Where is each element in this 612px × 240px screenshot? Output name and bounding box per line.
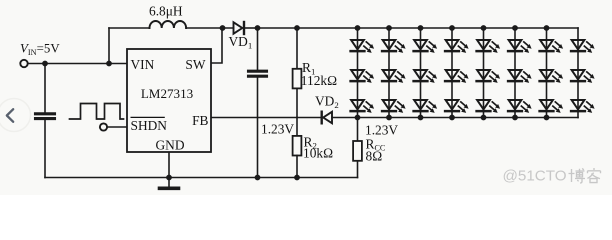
wire LED column 4 riser (451, 28, 453, 118)
node input cap junction (42, 61, 48, 67)
wire LED column 7 riser (546, 28, 548, 118)
LED D63 (508, 100, 531, 113)
node SW top junction (220, 25, 226, 31)
wire boost loop riser (108, 28, 110, 64)
wire LED column 5 riser (483, 28, 485, 118)
svg-text:SW: SW (185, 57, 205, 72)
inductor L1 6.8uH (150, 21, 187, 28)
svg-text:6.8μH: 6.8μH (149, 3, 183, 18)
svg-text:VIN=5V: VIN=5V (20, 42, 60, 57)
node C2 bottom (255, 175, 261, 181)
wire LED column 2 riser (388, 28, 390, 118)
node LED column 5 top (481, 25, 487, 31)
resistor R1 112k (293, 28, 302, 118)
node boost loop junction (106, 61, 112, 67)
wire VD1 to LED columns (257, 27, 578, 29)
wire LED column 1 riser (357, 28, 359, 118)
LED D13 (351, 100, 375, 113)
capacitor C1 input (36, 64, 55, 178)
wire top left to inductor (109, 27, 150, 29)
resistor RCC 8ohm (353, 118, 362, 178)
LED D32 (414, 70, 438, 83)
node R1 top (294, 25, 300, 31)
diode VD1 (234, 22, 258, 34)
svg-text:112kΩ: 112kΩ (301, 73, 337, 88)
LED D41 (445, 40, 469, 53)
svg-text:10kΩ: 10kΩ (303, 145, 333, 160)
LED D83 (571, 100, 595, 113)
node LED column 6 bottom (512, 115, 518, 121)
svg-text:LM27313: LM27313 (141, 86, 194, 101)
resistor R2 10k (293, 118, 302, 178)
terminal SHDN input (100, 123, 107, 130)
LED D22 (382, 70, 406, 83)
node LED column 7 bottom (544, 115, 550, 121)
wire inductor to VD1 (186, 27, 233, 29)
wire GND pin (168, 152, 170, 188)
svg-text:1.23V: 1.23V (261, 122, 294, 137)
node LED column 2 top (386, 25, 392, 31)
node LED column 5 bottom (481, 115, 487, 121)
wire FB pin to VD2 (211, 117, 321, 119)
node C2 top (255, 25, 261, 31)
LED D12 (351, 70, 375, 83)
LED D21 (382, 40, 406, 53)
svg-text:VIN: VIN (131, 57, 155, 72)
node LED column 7 top (544, 25, 550, 31)
svg-text:SHDN: SHDN (131, 118, 168, 133)
LED D23 (382, 100, 406, 113)
input terminal VIN (20, 60, 27, 67)
LED D11 (351, 40, 375, 53)
node LED column 3 top (418, 25, 424, 31)
watermark @51CTO blog (503, 168, 601, 185)
wire SW pin to top (211, 28, 222, 63)
capacitor C2 output (249, 28, 267, 178)
LED D73 (540, 100, 564, 113)
LED D53 (477, 100, 501, 113)
LED D33 (414, 100, 438, 113)
ground (160, 187, 179, 191)
svg-text:GND: GND (155, 137, 184, 152)
diode VD2 (322, 112, 358, 124)
op-amp U1 LM27313 boost converter IC (127, 49, 211, 152)
node LED column 4 top (449, 25, 455, 31)
LED D71 (540, 40, 564, 53)
node LED column 1 top (355, 25, 361, 31)
node LED column 4 bottom (449, 115, 455, 121)
svg-text:VD2: VD2 (315, 94, 339, 110)
LED D31 (414, 40, 438, 53)
LED D52 (477, 70, 501, 83)
node R2 bottom (294, 175, 300, 181)
LED D82 (571, 70, 595, 83)
node LED column 6 top (512, 25, 518, 31)
LED D61 (508, 40, 531, 53)
LED D72 (540, 70, 564, 83)
svg-text:1.23V: 1.23V (365, 122, 398, 137)
svg-text:VD1: VD1 (229, 34, 253, 50)
LED D51 (477, 40, 501, 53)
svg-text:FB: FB (192, 113, 208, 128)
node FB sense junction (355, 115, 361, 121)
wire ground rail (45, 177, 358, 179)
LED D42 (445, 70, 469, 83)
node LED column 3 bottom (418, 115, 424, 121)
node LED column 2 bottom (386, 115, 392, 121)
LED D62 (508, 70, 531, 83)
wire LED column 6 riser (514, 28, 516, 118)
PWM square wave symbol (70, 104, 124, 120)
wire SHDN to IC (107, 126, 127, 128)
LED D43 (445, 100, 469, 113)
carousel chevron UI (0, 99, 31, 132)
node GND rail junction (166, 175, 172, 181)
svg-text:@51CTO: @51CTO (503, 168, 567, 185)
LED D81 (571, 40, 595, 53)
svg-text:8Ω: 8Ω (366, 149, 383, 164)
wire LED bottom rail (358, 117, 579, 119)
wire LED column 8 riser (577, 28, 579, 118)
wire LED column 3 riser (420, 28, 422, 118)
wire VIN input to IC (28, 63, 127, 65)
